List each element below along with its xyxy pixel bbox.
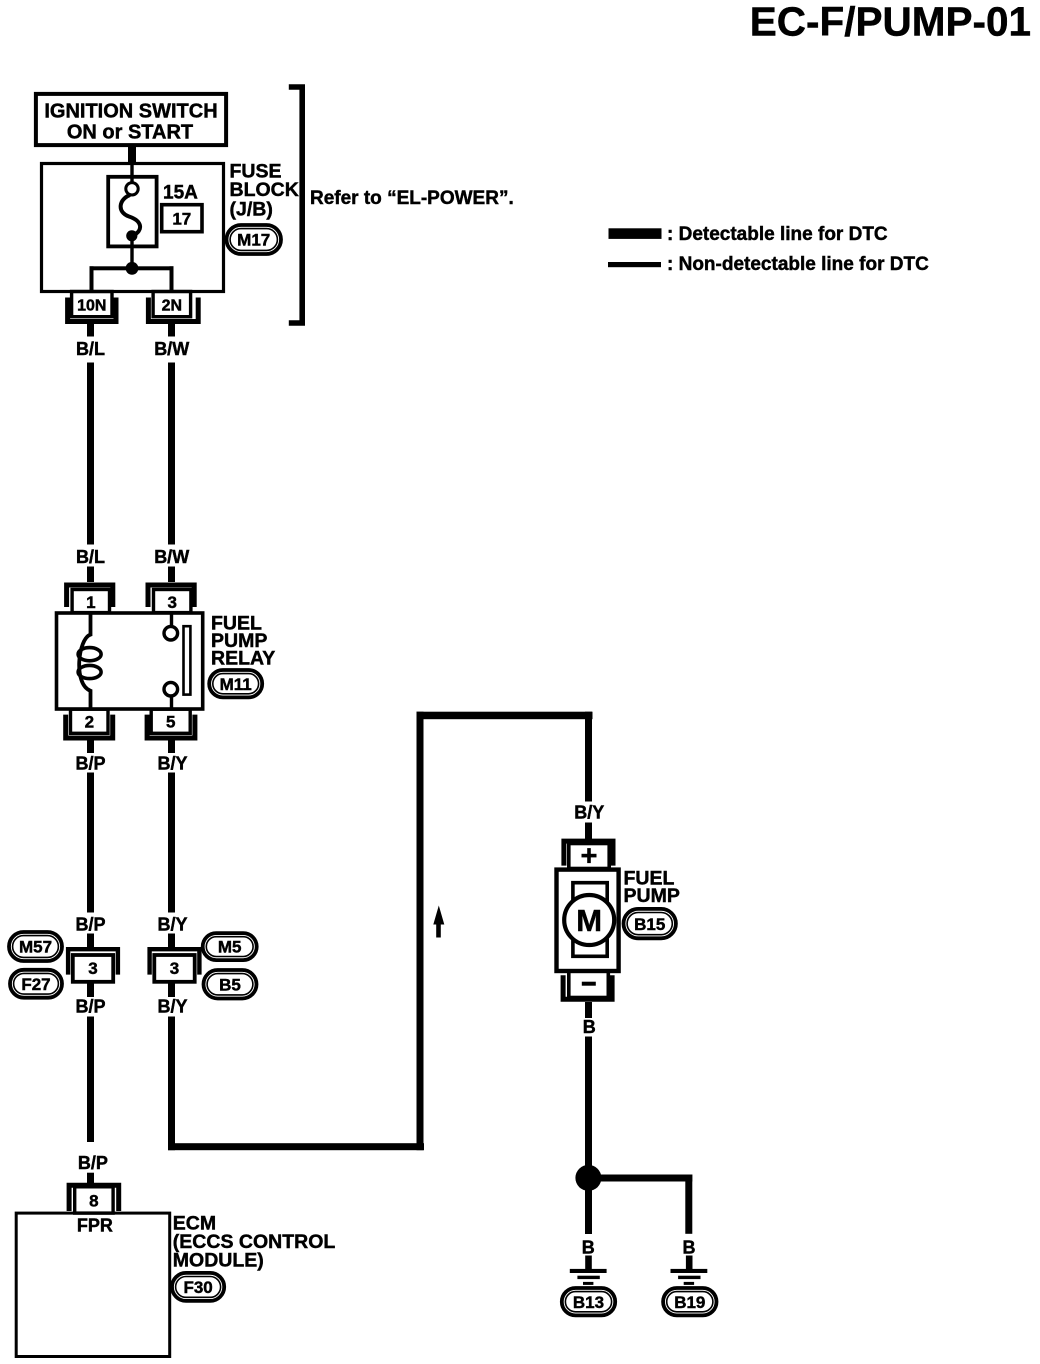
svg-text:B/P: B/P: [75, 997, 105, 1017]
relay contact bar: [184, 626, 191, 694]
svg-text:M17: M17: [237, 231, 270, 250]
ground symbol right: [671, 1269, 708, 1285]
wire stub below 10N: [87, 324, 94, 337]
wire stub into inline connector right: [168, 934, 175, 951]
connector housing 10N: [68, 298, 116, 322]
relay contact circle bottom: [164, 682, 178, 696]
svg-text:ON or START: ON or START: [67, 121, 193, 143]
wire stub into inline connector left: [87, 934, 94, 951]
svg-text:B/L: B/L: [76, 547, 105, 567]
connector oval F27: [10, 970, 62, 998]
inline connector left housing: [68, 949, 118, 974]
pump plus housing: [564, 841, 613, 866]
svg-text:: Detectable line for DTC: : Detectable line for DTC: [667, 224, 888, 245]
motor circle: [564, 895, 614, 945]
fuse block box M17: [42, 164, 224, 292]
wire stub to relay pin 1: [87, 567, 94, 583]
ignition switch block: [36, 94, 226, 145]
svg-text:B/W: B/W: [154, 339, 189, 359]
svg-text:2N: 2N: [162, 298, 182, 315]
relay pin 2 housing: [66, 715, 113, 738]
wire top horizontal to pump: [417, 712, 593, 720]
wire stub below inline connector right: [168, 982, 175, 997]
junction dot: [575, 1165, 601, 1191]
connector oval F30: [172, 1273, 224, 1301]
svg-text:B: B: [583, 1017, 596, 1037]
bus bar horizontal: [90, 266, 174, 270]
svg-text:MODULE): MODULE): [173, 1250, 264, 1272]
wire stub below pin 2: [87, 741, 94, 754]
relay contact wire bottom: [170, 696, 173, 710]
relay pin 2 box: [71, 709, 109, 733]
relay coil: [79, 613, 90, 709]
ECM pin 8 housing: [69, 1185, 119, 1211]
fuse bottom terminal dot: [126, 230, 137, 241]
wire into fuse: [130, 162, 133, 183]
wire B/Y down to corner: [168, 1017, 175, 1151]
wire B/W long: [168, 363, 175, 545]
wire stub below pin 5: [168, 741, 175, 754]
connector housing 2N: [148, 298, 198, 322]
relay pin 5 box: [151, 709, 190, 733]
svg-text:B/Y: B/Y: [157, 914, 187, 934]
wire branch vertical up: [417, 712, 424, 1150]
connector oval M5: [203, 933, 257, 960]
svg-text:F27: F27: [21, 975, 50, 994]
svg-text:1: 1: [86, 593, 95, 612]
svg-text:B: B: [582, 1237, 595, 1257]
svg-text:B5: B5: [219, 976, 241, 995]
wire B down: [585, 1037, 592, 1167]
bracket refer: [289, 87, 302, 323]
svg-text:2: 2: [85, 713, 94, 732]
svg-text:(J/B): (J/B): [230, 199, 273, 221]
relay pin 3 housing: [148, 585, 194, 607]
pump minus box: [569, 971, 609, 998]
svg-text:B/W: B/W: [154, 547, 189, 567]
wire stub to pump plus: [585, 823, 592, 842]
svg-text:10N: 10N: [77, 298, 106, 315]
bus bar left drop: [90, 266, 94, 292]
wire fuse to bus: [130, 241, 133, 263]
connector oval B15: [624, 909, 676, 938]
svg-text:F30: F30: [183, 1278, 212, 1297]
legend: detectable line sample: [609, 228, 662, 239]
svg-text:B/Y: B/Y: [157, 753, 187, 773]
relay pin 3 box: [154, 590, 191, 613]
fuel pump inner frame: [573, 883, 607, 957]
svg-text:B13: B13: [573, 1293, 604, 1312]
ground connector oval B19: [663, 1288, 716, 1315]
wire stub below pump: [585, 1002, 592, 1018]
svg-text:Refer to “EL-POWER”.: Refer to “EL-POWER”.: [310, 188, 514, 209]
terminal 10N box: [72, 292, 112, 317]
relay contact circle top: [164, 626, 178, 640]
junction dot on bus: [126, 262, 139, 275]
svg-text:B/P: B/P: [75, 753, 105, 773]
svg-text:8: 8: [89, 1192, 98, 1211]
fuse number 17 box: [162, 205, 202, 232]
relay coil loop 2: [78, 665, 101, 678]
relay coil loop 1: [78, 648, 101, 661]
flow arrow: [433, 906, 444, 938]
svg-text:M: M: [576, 903, 602, 938]
fuse top terminal circle: [126, 183, 138, 195]
wire below junction: [585, 1190, 592, 1234]
relay pin 1 box: [72, 590, 109, 613]
bus bar right drop: [170, 266, 174, 292]
ground connector oval B13: [562, 1288, 615, 1315]
svg-text:B/P: B/P: [78, 1153, 108, 1173]
svg-text:B/P: B/P: [75, 914, 105, 934]
inline connector right box 3: [154, 955, 194, 982]
wire B/P to ECM: [87, 1017, 94, 1143]
svg-text:B: B: [683, 1237, 696, 1257]
relay contact wire top: [170, 613, 173, 627]
ground stub left: [585, 1256, 592, 1270]
svg-text:5: 5: [166, 713, 175, 732]
svg-text:B/Y: B/Y: [157, 997, 187, 1017]
fuel pump relay box M11: [57, 613, 203, 709]
svg-text:3: 3: [170, 959, 179, 978]
svg-text:B/Y: B/Y: [574, 803, 604, 823]
fuse 15A box: [108, 177, 156, 247]
ground stub right: [686, 1256, 693, 1270]
inline connector right housing: [150, 949, 200, 974]
connector oval M17: [227, 225, 282, 254]
svg-text:: Non-detectable line for DTC: : Non-detectable line for DTC: [667, 254, 929, 275]
terminal 2N box: [153, 292, 191, 317]
wire stub below 2N: [168, 324, 175, 337]
wire branch right horizontal: [588, 1175, 692, 1182]
wire B/L long: [87, 363, 94, 545]
fuse element S-curve: [121, 195, 140, 236]
relay pin 1 housing: [67, 585, 113, 607]
svg-text:3: 3: [88, 959, 97, 978]
svg-text:PUMP: PUMP: [624, 885, 680, 907]
connector oval M57: [9, 932, 62, 961]
svg-text:M11: M11: [220, 675, 252, 694]
wire down to pump: [585, 712, 592, 802]
wire B/Y: [168, 773, 175, 913]
svg-text:RELAY: RELAY: [211, 648, 275, 670]
svg-text:B/L: B/L: [76, 339, 105, 359]
svg-text:FPR: FPR: [77, 1216, 113, 1236]
wire stub below inline connector left: [87, 982, 94, 997]
svg-text:M5: M5: [218, 938, 242, 957]
legend: non-detectable line sample: [608, 262, 661, 267]
svg-text:IGNITION SWITCH: IGNITION SWITCH: [44, 101, 217, 123]
ECM box F30: [16, 1213, 170, 1356]
wire ignition switch to fuse block: [128, 146, 136, 163]
svg-text:17: 17: [172, 210, 191, 229]
svg-text:3: 3: [167, 593, 176, 612]
pump plus box: [569, 844, 609, 869]
svg-text:EC-F/PUMP-01: EC-F/PUMP-01: [750, 0, 1031, 45]
wire branch right vertical: [685, 1175, 692, 1234]
wire B/P: [87, 773, 94, 913]
connector oval B5: [204, 970, 257, 999]
svg-text:B15: B15: [634, 915, 665, 934]
inline connector left box 3: [73, 955, 113, 982]
svg-text:B19: B19: [674, 1293, 705, 1312]
wire horizontal to branch: [168, 1143, 424, 1150]
relay pin 5 housing: [147, 715, 195, 738]
connector oval M11: [209, 670, 262, 697]
svg-text:15A: 15A: [163, 183, 198, 204]
wire stub to relay pin 3: [168, 567, 175, 583]
pump minus housing: [563, 975, 612, 999]
wire stub to ECM pin 8: [87, 1173, 94, 1185]
fuel pump body B15: [557, 870, 619, 971]
ECM pin 8 box: [75, 1187, 113, 1213]
svg-text:M57: M57: [19, 938, 52, 957]
pump minus sign: [582, 982, 596, 986]
ground symbol left: [570, 1269, 607, 1285]
